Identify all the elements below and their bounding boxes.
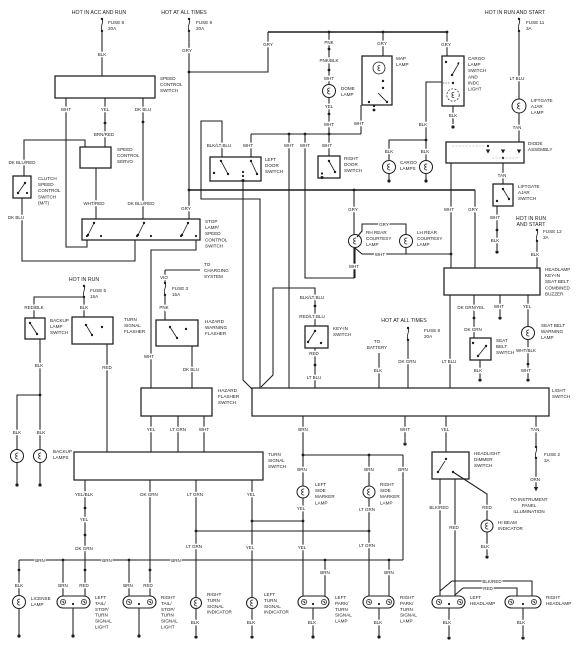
wire YEL hazard switch to turn signal switch xyxy=(147,416,156,452)
top rail GRY bus xyxy=(268,31,448,34)
wire TAN diode assembly to liftgate ajar switch xyxy=(498,163,507,184)
svg-text:LAMP: LAMP xyxy=(468,62,481,67)
svg-text:SIGNAL: SIGNAL xyxy=(95,619,112,624)
svg-text:BRN: BRN xyxy=(320,570,330,575)
svg-text:LEFT: LEFT xyxy=(335,595,346,600)
svg-text:WHT: WHT xyxy=(284,143,294,148)
svg-text:DK GRN: DK GRN xyxy=(464,327,482,332)
svg-text:HI BEAM: HI BEAM xyxy=(498,520,517,525)
wire WHT map lamp to door bus xyxy=(354,105,364,134)
wire BLK/LT BLU key-in switch feed xyxy=(261,288,325,387)
svg-text:SIDE: SIDE xyxy=(315,488,326,493)
wire GRY courtesy crossover xyxy=(357,222,406,237)
svg-text:YEL: YEL xyxy=(325,104,334,109)
svg-text:INDICATOR: INDICATOR xyxy=(207,610,233,615)
svg-text:TAIL/: TAIL/ xyxy=(161,601,172,606)
right door switch S7 xyxy=(318,156,362,179)
svg-text:WHT/RED: WHT/RED xyxy=(84,201,106,206)
svg-text:FUSE 11: FUSE 11 xyxy=(526,20,545,25)
svg-text:3A: 3A xyxy=(526,26,533,31)
svg-text:SEAT BELT: SEAT BELT xyxy=(545,279,569,284)
svg-text:LIGHT: LIGHT xyxy=(161,625,175,630)
svg-text:LAMP: LAMP xyxy=(341,92,354,97)
left headlamp E21 xyxy=(432,595,495,608)
svg-text:SWITCH: SWITCH xyxy=(38,194,56,199)
svg-text:LT BLU: LT BLU xyxy=(442,359,457,364)
svg-text:WHT: WHT xyxy=(375,252,385,257)
svg-text:TURN: TURN xyxy=(95,613,108,618)
svg-text:LT GRN: LT GRN xyxy=(170,427,186,432)
wire PNK fuse 3 to hazard warning flasher xyxy=(159,295,168,320)
svg-text:WHT: WHT xyxy=(444,207,454,212)
svg-text:LIFTGATE: LIFTGATE xyxy=(531,98,553,103)
svg-text:DOOR: DOOR xyxy=(344,162,358,167)
svg-text:RIGHT: RIGHT xyxy=(546,595,560,600)
wire BLK/RED dimmer low beam xyxy=(429,479,449,596)
svg-text:MARKER: MARKER xyxy=(315,494,335,499)
svg-text:PARK/: PARK/ xyxy=(335,601,349,606)
svg-text:RED: RED xyxy=(482,505,492,510)
svg-text:BLK: BLK xyxy=(421,149,430,154)
ground left park lamp xyxy=(308,608,317,639)
svg-text:WHT: WHT xyxy=(199,427,209,432)
svg-text:BLK: BLK xyxy=(35,363,44,368)
svg-text:HOT AT ALL TIMES: HOT AT ALL TIMES xyxy=(161,10,207,16)
svg-text:RIGHT: RIGHT xyxy=(161,595,175,600)
svg-text:BRN: BRN xyxy=(102,558,112,563)
svg-text:GRY: GRY xyxy=(182,48,192,53)
ground left headlamp xyxy=(443,608,452,640)
svg-text:20A: 20A xyxy=(424,334,433,339)
svg-text:HOT IN RUN AND START: HOT IN RUN AND START xyxy=(485,10,546,16)
svg-text:FUSE 8: FUSE 8 xyxy=(424,328,441,333)
svg-text:DK GRN: DK GRN xyxy=(140,492,158,497)
ground hi beam indicator xyxy=(481,532,490,559)
wire RED dimmer high beam xyxy=(449,479,459,596)
svg-text:SPEED: SPEED xyxy=(38,182,54,187)
svg-text:LIGHT: LIGHT xyxy=(95,625,109,630)
svg-text:SIGNAL: SIGNAL xyxy=(207,604,224,609)
svg-text:HOT AT ALL TIMES: HOT AT ALL TIMES xyxy=(381,318,427,324)
instrument panel illumination feed label xyxy=(511,497,548,514)
svg-text:INDC: INDC xyxy=(468,80,480,85)
ground left tail light xyxy=(71,608,74,638)
svg-text:DOOR: DOOR xyxy=(265,163,279,168)
svg-text:SIDE: SIDE xyxy=(380,488,391,493)
cargo lamp right E6 xyxy=(420,161,433,174)
wire BLK/LT BLU left door switch feed xyxy=(201,121,260,388)
svg-text:SYSTEM: SYSTEM xyxy=(204,274,223,279)
svg-text:FUSE 9: FUSE 9 xyxy=(196,20,213,25)
svg-text:BLK/LT BLU: BLK/LT BLU xyxy=(300,295,325,300)
svg-text:SWITCH: SWITCH xyxy=(50,330,68,335)
svg-text:PNK: PNK xyxy=(324,40,333,45)
svg-text:SEAT BELT: SEAT BELT xyxy=(541,323,565,328)
svg-text:CONTROL: CONTROL xyxy=(160,82,183,87)
svg-text:SWITCH: SWITCH xyxy=(333,332,351,337)
svg-text:LT GRN: LT GRN xyxy=(359,543,375,548)
wire WHT hazard switch to turn signal switch xyxy=(199,416,209,452)
wire DK BLU hazard flasher to hazard switch xyxy=(183,346,199,388)
svg-text:15A: 15A xyxy=(90,294,99,299)
wire WHT riser to light switch xyxy=(284,134,294,388)
right side marker lamp E12 xyxy=(363,482,400,505)
svg-text:LT GRN: LT GRN xyxy=(359,507,375,512)
LT GRN crossover bus xyxy=(196,530,369,532)
wire BRN to left side marker xyxy=(297,455,307,486)
ground right headlamp xyxy=(517,608,526,640)
svg-text:SWITCH: SWITCH xyxy=(268,464,286,469)
svg-text:YEL: YEL xyxy=(80,517,89,522)
svg-text:LIGHT: LIGHT xyxy=(468,87,482,92)
side marker BRN bus xyxy=(303,454,403,457)
svg-text:PNK: PNK xyxy=(159,305,168,310)
ground left turn indicator xyxy=(247,609,256,639)
wire BRN to right tail lamp xyxy=(123,560,133,596)
svg-text:SIGNAL: SIGNAL xyxy=(264,604,281,609)
svg-text:FLASHER: FLASHER xyxy=(124,329,146,334)
wire WHT/BLK liftgate switch ground xyxy=(490,206,500,254)
svg-text:TURN: TURN xyxy=(264,598,277,603)
svg-text:SWITCH: SWITCH xyxy=(218,400,236,405)
svg-text:LAMP: LAMP xyxy=(335,619,348,624)
svg-text:WHT: WHT xyxy=(300,143,310,148)
svg-text:YEL/BLK: YEL/BLK xyxy=(75,492,93,497)
svg-text:PANEL: PANEL xyxy=(522,503,537,508)
svg-text:RED: RED xyxy=(449,525,459,530)
svg-text:LEFT: LEFT xyxy=(95,595,106,600)
svg-text:LEFT: LEFT xyxy=(315,482,326,487)
svg-text:LAMP: LAMP xyxy=(50,324,63,329)
svg-text:BLK: BLK xyxy=(491,238,500,243)
svg-text:DIODE: DIODE xyxy=(528,141,543,146)
svg-text:BACKUP: BACKUP xyxy=(53,449,72,454)
right tail/stop/turn light E15 xyxy=(123,595,178,630)
courtesy feed rail GRY xyxy=(188,189,475,192)
stop lamp / speed control switch S3 xyxy=(82,219,228,248)
wire BLK backup switch to backup lamps xyxy=(35,339,44,396)
svg-text:GRY: GRY xyxy=(441,42,451,47)
svg-text:YEL: YEL xyxy=(101,107,110,112)
dome lamp E3 xyxy=(323,85,355,98)
svg-text:KEY-IN: KEY-IN xyxy=(333,326,348,331)
svg-text:LAMP: LAMP xyxy=(315,500,328,505)
svg-text:BRN: BRN xyxy=(398,467,408,472)
svg-text:DK BLU: DK BLU xyxy=(135,107,151,112)
RED headlamp bus xyxy=(455,586,517,596)
svg-text:DK BLU/RED: DK BLU/RED xyxy=(127,201,155,206)
wire GRY rail to RH courtesy lamp xyxy=(348,190,358,234)
ground WHT light switch xyxy=(400,416,410,446)
svg-text:DIMMER: DIMMER xyxy=(474,457,493,462)
svg-text:BRN: BRN xyxy=(384,570,394,575)
YEL crossover bus xyxy=(252,520,303,522)
seat belt warning lamp E10 xyxy=(522,323,566,340)
svg-text:BLK: BLK xyxy=(308,620,317,625)
wire servo to clutch speed control switch xyxy=(8,140,85,176)
left park/turn signal lamp E18 xyxy=(298,595,352,624)
wire LT GRN right marker to park lamp xyxy=(359,498,375,596)
svg-text:WHT: WHT xyxy=(324,76,334,81)
svg-text:DK BLU: DK BLU xyxy=(183,367,199,372)
ground right park lamp xyxy=(374,608,383,639)
wire BLK fuse 12 to buzzer xyxy=(531,241,540,268)
svg-text:FUSE 3: FUSE 3 xyxy=(172,286,189,291)
svg-text:TAN: TAN xyxy=(513,125,522,130)
svg-text:RED: RED xyxy=(483,586,493,591)
svg-text:BRN: BRN xyxy=(297,467,307,472)
svg-text:COURTESY: COURTESY xyxy=(366,236,391,241)
hazard flasher switch S5 xyxy=(141,388,240,416)
speed control servo M1 xyxy=(80,147,140,168)
wire BRN to left tail lamp xyxy=(58,560,68,596)
svg-text:WHT: WHT xyxy=(349,264,359,269)
wire WHT riser to courtesy lamps xyxy=(300,134,354,278)
svg-text:DK BLU/RED: DK BLU/RED xyxy=(8,160,36,165)
svg-text:BLK: BLK xyxy=(517,620,526,625)
wire TAN liftgate lamp to diode assembly xyxy=(513,113,522,142)
wire backup lamp branch xyxy=(13,395,40,449)
wire LT BLU buzzer to light switch xyxy=(442,295,457,388)
svg-text:BRN: BRN xyxy=(123,583,133,588)
ground backup lamp left xyxy=(15,463,18,487)
svg-text:HEADLIGHT: HEADLIGHT xyxy=(474,451,500,456)
svg-text:DOME: DOME xyxy=(341,86,355,91)
wire DK BLU clutch switch to stop lamp switch xyxy=(8,198,135,261)
wire LT GRN hazard switch to turn signal switch xyxy=(170,416,186,452)
right headlamp E22 xyxy=(505,595,571,608)
wire BLK cargo switch ground xyxy=(449,106,458,129)
svg-text:BLK/LT BLU: BLK/LT BLU xyxy=(207,143,232,148)
svg-text:PARK/: PARK/ xyxy=(400,601,414,606)
light switch S12 xyxy=(252,388,570,416)
svg-text:TO: TO xyxy=(374,339,381,344)
wire GRY map lamp feed xyxy=(377,32,387,56)
svg-text:CONTROL: CONTROL xyxy=(117,153,140,158)
cargo lamp switch and indicator S8 xyxy=(442,56,486,106)
svg-text:WHT: WHT xyxy=(400,427,410,432)
left turn signal indicator E17 xyxy=(247,592,290,615)
svg-text:BLK/RED: BLK/RED xyxy=(429,505,449,510)
svg-text:SPEED: SPEED xyxy=(205,231,221,236)
wire BRN to right park lamp xyxy=(384,560,394,596)
ground right tail light xyxy=(137,608,140,638)
svg-text:TURN: TURN xyxy=(335,607,348,612)
left door switch contacts xyxy=(213,160,258,182)
svg-text:GRY: GRY xyxy=(377,41,387,46)
svg-text:LH REAR: LH REAR xyxy=(417,230,438,235)
svg-text:LAMP: LAMP xyxy=(541,335,554,340)
svg-text:BLK: BLK xyxy=(474,368,483,373)
svg-text:BRN: BRN xyxy=(58,583,68,588)
svg-text:DK GRN: DK GRN xyxy=(398,359,416,364)
svg-text:TO: TO xyxy=(204,262,211,267)
liftgate ajar switch S9 xyxy=(493,184,540,206)
svg-text:(M/T): (M/T) xyxy=(38,200,49,205)
svg-text:LT BLU: LT BLU xyxy=(510,76,525,81)
wire YEL/WHT dome lamp to door bus xyxy=(324,98,334,134)
wire GRY rail to buzzer xyxy=(468,190,478,268)
wire RED/BLK fuse 5 to backup lamp switch xyxy=(24,297,84,318)
power feed fuse 12 (HOT IN RUN AND START) xyxy=(516,216,562,242)
svg-text:YEL: YEL xyxy=(247,492,256,497)
clutch speed control switch S2 xyxy=(13,176,61,205)
svg-text:RED/BLK: RED/BLK xyxy=(24,305,43,310)
wire stop lamp switch to hazard flasher switch xyxy=(144,240,196,388)
wire GRY cargo switch feed xyxy=(441,32,451,56)
svg-text:SERVO: SERVO xyxy=(117,159,133,164)
wire BRN to right side marker xyxy=(364,455,374,486)
svg-text:LAMPS: LAMPS xyxy=(400,166,416,171)
svg-text:RH REAR: RH REAR xyxy=(366,230,387,235)
svg-text:3A: 3A xyxy=(543,235,550,240)
svg-text:BLK: BLK xyxy=(443,620,452,625)
svg-text:SWITCH: SWITCH xyxy=(552,394,570,399)
wire BRN to left park lamp xyxy=(320,560,330,596)
left tail/stop/turn light E14 xyxy=(57,595,112,630)
battery feed (TO BATTERY) xyxy=(367,339,387,388)
svg-text:CARGO: CARGO xyxy=(400,160,417,165)
svg-text:WARNING: WARNING xyxy=(205,325,227,330)
ground right turn indicator xyxy=(191,609,200,639)
svg-text:BLK: BLK xyxy=(481,544,490,549)
power feed fuse 8 (HOT AT ALL TIMES) xyxy=(381,318,440,341)
svg-text:TURN: TURN xyxy=(161,613,174,618)
svg-text:RIGHT: RIGHT xyxy=(400,595,414,600)
wire BLK cargo lamp branch xyxy=(385,140,430,160)
wire YEL buzzer to seat belt warning lamp xyxy=(523,295,532,326)
svg-text:LEFT: LEFT xyxy=(265,157,276,162)
right turn signal indicator E16 xyxy=(191,592,233,615)
svg-text:LICENSE: LICENSE xyxy=(31,596,51,601)
svg-text:RED/LT BLU: RED/LT BLU xyxy=(299,314,325,319)
ground cargo lamp left xyxy=(387,174,390,183)
svg-text:WHT: WHT xyxy=(324,122,334,127)
BLK/RED headlamp bus xyxy=(440,579,532,596)
svg-text:SWITCH: SWITCH xyxy=(468,68,486,73)
svg-text:LAMP: LAMP xyxy=(400,619,413,624)
ground BLK seat belt switch xyxy=(474,360,483,382)
svg-text:BRN: BRN xyxy=(364,467,374,472)
svg-text:AND START: AND START xyxy=(517,222,547,228)
stop lamp switch contacts 2 xyxy=(136,222,152,237)
wire backup lamp right xyxy=(37,395,46,449)
svg-text:GRY: GRY xyxy=(263,42,273,47)
svg-text:RED: RED xyxy=(309,351,319,356)
license lamp E13 xyxy=(13,596,51,609)
svg-text:WHT: WHT xyxy=(144,354,154,359)
svg-text:STOP/: STOP/ xyxy=(95,607,109,612)
svg-text:SWITCH: SWITCH xyxy=(205,243,223,248)
svg-text:15A: 15A xyxy=(172,292,181,297)
svg-text:BLK: BLK xyxy=(374,368,383,373)
svg-text:HOT IN RUN: HOT IN RUN xyxy=(69,277,99,283)
wire LT GRN turn switch to right indicator xyxy=(186,480,203,597)
svg-text:BLK: BLK xyxy=(80,305,89,310)
wire YEL/BLK turn switch to left tail xyxy=(75,480,93,596)
svg-text:ASSEMBLY: ASSEMBLY xyxy=(528,147,552,152)
svg-text:MAP: MAP xyxy=(396,56,406,61)
liftgate ajar lamp E7 xyxy=(512,98,553,115)
svg-text:YEL: YEL xyxy=(297,506,306,511)
ground cargo lamp right xyxy=(424,174,427,183)
map lamp with switch E4 xyxy=(362,56,409,105)
svg-text:SWITCH: SWITCH xyxy=(344,168,362,173)
svg-text:BLK: BLK xyxy=(15,583,24,588)
headlamp key-in seat belt combined buzzer U4 xyxy=(444,267,570,296)
wire WHT left door switch pin xyxy=(243,134,253,157)
wire YEL left marker to park lamp xyxy=(297,498,307,596)
wire RED dimmer to hi beam indicator xyxy=(453,472,492,520)
wire LT BLU fuse 11 to liftgate ajar lamp xyxy=(510,31,525,99)
diode assembly U3 xyxy=(446,141,552,163)
svg-text:YEL: YEL xyxy=(147,427,156,432)
backup lamp left E1 xyxy=(11,450,24,463)
wire BRN light switch tail feed xyxy=(298,416,308,456)
svg-text:GRY: GRY xyxy=(379,222,389,227)
svg-text:LAMP: LAMP xyxy=(380,500,393,505)
svg-text:HEADLAMP: HEADLAMP xyxy=(545,267,570,272)
svg-text:TAN: TAN xyxy=(531,427,540,432)
svg-text:BUZZER: BUZZER xyxy=(545,291,564,296)
svg-text:SIGNAL: SIGNAL xyxy=(268,458,285,463)
backup lamp right E2 xyxy=(34,449,72,463)
svg-text:YEL: YEL xyxy=(523,304,532,309)
diode assembly internals xyxy=(452,145,521,159)
stop lamp switch contacts 3 xyxy=(180,222,197,237)
power feed fuse 11 (HOT IN RUN AND START) xyxy=(485,10,546,32)
map lamp switch contacts xyxy=(368,80,388,112)
svg-text:WHT/BLK: WHT/BLK xyxy=(516,348,536,353)
cargo switch contacts xyxy=(443,61,460,84)
svg-text:RIGHT: RIGHT xyxy=(207,592,221,597)
svg-text:WHT: WHT xyxy=(61,107,71,112)
svg-text:WHT: WHT xyxy=(494,304,504,309)
svg-text:RED: RED xyxy=(102,365,112,370)
svg-text:BLK: BLK xyxy=(37,430,46,435)
wire DK BLU speed control switch to stop lamp switch xyxy=(127,98,155,219)
svg-text:BLK: BLK xyxy=(191,620,200,625)
svg-text:SIGNAL: SIGNAL xyxy=(335,613,352,618)
svg-text:YEL: YEL xyxy=(246,545,255,550)
svg-text:SWITCH: SWITCH xyxy=(474,463,492,468)
wire door switch ground side to light switch xyxy=(243,181,252,389)
svg-text:BLK: BLK xyxy=(247,620,256,625)
svg-text:BELT: BELT xyxy=(496,344,507,349)
svg-text:AND: AND xyxy=(468,74,478,79)
svg-text:20A: 20A xyxy=(108,26,117,31)
wire WHT/RED servo to stop lamp switch xyxy=(84,168,106,219)
RH rear courtesy lamp E8 xyxy=(349,230,392,248)
wire YEL turn switch to left indicator xyxy=(246,480,256,597)
power feed fuse 9 (HOT AT ALL TIMES) xyxy=(161,10,212,32)
svg-text:TURN: TURN xyxy=(124,317,137,322)
svg-text:FLASHER: FLASHER xyxy=(218,394,240,399)
svg-text:RED: RED xyxy=(143,583,153,588)
wire BLK fuse 8 to speed control switch xyxy=(98,31,107,76)
svg-text:BLK: BLK xyxy=(385,149,394,154)
svg-text:BRN: BRN xyxy=(35,558,45,563)
wire PNK dome lamp feed xyxy=(319,32,338,84)
svg-text:LAMP: LAMP xyxy=(417,242,430,247)
left door switch S6 xyxy=(210,157,283,181)
svg-text:DK GRN/YEL: DK GRN/YEL xyxy=(457,305,485,310)
wire DK GRN fuse 8 to light switch xyxy=(398,340,416,388)
wire TAN light switch to fuse 2 xyxy=(531,416,540,446)
turn signal flasher U1 xyxy=(72,317,146,344)
svg-text:FUSE 5: FUSE 5 xyxy=(90,288,107,293)
svg-text:SWITCH: SWITCH xyxy=(496,350,514,355)
